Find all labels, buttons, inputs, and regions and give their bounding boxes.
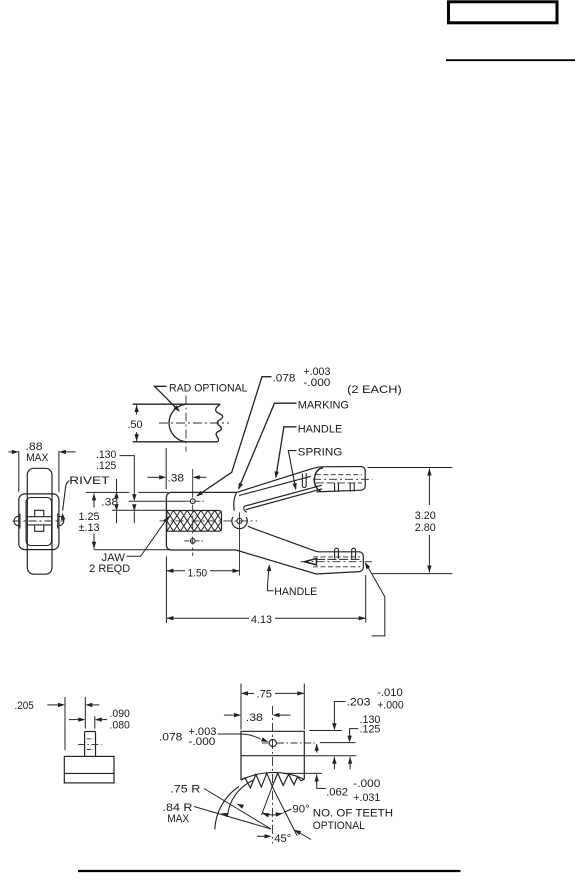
footer rule (78, 870, 461, 872)
svg-text:OPTIONAL: OPTIONAL (313, 820, 365, 832)
upper tube crimp ticks (334, 483, 336, 492)
lower tube wire hole wedge (305, 559, 317, 565)
hole center extension (320, 742, 356, 744)
dim .205 (64, 697, 66, 750)
svg-text:.090: .090 (110, 708, 130, 720)
arm neck curves (234, 492, 237, 510)
svg-text:.080: .080 (110, 720, 130, 732)
dim .062 (317, 787, 326, 789)
jaw plate mid line (241, 755, 304, 757)
dim .38 vertical arrows (114, 491, 118, 498)
svg-text:-.010: -.010 (377, 687, 403, 699)
svg-text:HANDLE: HANDLE (274, 586, 317, 598)
svg-text:.75: .75 (257, 688, 273, 700)
upper handle top edge (237, 466, 366, 492)
dim .50 arrows (134, 405, 138, 412)
plate top extension (309, 730, 341, 732)
rivet detail head (64, 756, 114, 783)
rivet holes vertical centerline (192, 469, 194, 498)
top view: rounded end arc (169, 404, 186, 442)
dim .38 detail (234, 713, 241, 717)
jaw teeth hatch (167, 511, 222, 532)
leader SPRING (288, 451, 296, 489)
svg-text:RAD OPTIONAL: RAD OPTIONAL (169, 382, 248, 394)
title block box top right (449, 2, 558, 23)
top view: vertical centerline (185, 396, 187, 452)
svg-text:4.13: 4.13 (251, 614, 272, 626)
90 deg arc (262, 813, 283, 815)
leader MARKING (239, 403, 297, 488)
svg-text:+.003: +.003 (303, 366, 330, 378)
dim .88 MAX (18, 451, 20, 492)
jaw centerline (160, 520, 258, 522)
jaw face arc (241, 772, 304, 780)
svg-text:1.50: 1.50 (188, 567, 208, 579)
dim 1.50 (165, 557, 167, 624)
top view: horizontal centerline (159, 422, 229, 424)
extension line jaw top (1.25 top) (86, 491, 130, 493)
detail vertical centerline (272, 706, 274, 844)
mid line extension (304, 755, 356, 757)
radius line .75R (204, 789, 271, 830)
dim .090/.080 (94, 716, 96, 728)
lower tube centerline (301, 561, 373, 563)
svg-text:.078: .078 (159, 732, 183, 744)
svg-text:.078: .078 (273, 372, 296, 384)
rivet stem hidden dashes (87, 738, 94, 740)
svg-text:MARKING: MARKING (298, 400, 349, 412)
teeth zigzag (241, 773, 304, 788)
extension line jaw bottom (1.25 bottom) (94, 549, 171, 551)
svg-text:.062: .062 (326, 787, 348, 799)
leader to lower tube end (366, 564, 385, 636)
lower tube crimp ticks (335, 548, 339, 559)
leader .078 detail to hole (218, 734, 261, 739)
dim .38 horizontal (165, 448, 167, 490)
upper tube U crimp tick (302, 473, 306, 487)
svg-text:.38: .38 (246, 712, 263, 724)
rivet hole bottom (190, 539, 195, 544)
upper tube centerline (313, 478, 373, 480)
jaw plate detail outline (241, 731, 304, 780)
svg-text:(2 EACH): (2 EACH) (347, 384, 402, 396)
upper handle fold line (239, 476, 311, 495)
45 deg arrow (265, 834, 272, 838)
top view: break line (216, 404, 223, 442)
svg-text:1.25: 1.25 (79, 511, 100, 523)
dim 3.20/2.80 (427, 469, 431, 476)
svg-text:RIVET: RIVET (69, 475, 110, 487)
svg-text:3.20: 3.20 (415, 510, 436, 522)
top view: jaw top outline (133, 403, 221, 405)
svg-text:NO. OF TEETH: NO. OF TEETH (313, 807, 393, 819)
svg-text:HANDLE: HANDLE (298, 423, 343, 435)
front view: rivet end bumps (14, 516, 19, 526)
dim 1.25 +-.13 (92, 493, 96, 500)
svg-text:2.80: 2.80 (415, 522, 436, 534)
svg-text:MAX: MAX (167, 813, 190, 825)
svg-text:+.000: +.000 (377, 700, 404, 712)
svg-text:MAX: MAX (26, 452, 49, 464)
front view: jaw plate lines (26, 516, 51, 518)
svg-text:+.031: +.031 (353, 792, 380, 804)
upper tube crimp arc (314, 468, 323, 491)
svg-text:.125: .125 (96, 460, 116, 472)
svg-text:.203: .203 (347, 697, 371, 709)
front view: rivet cross (35, 510, 44, 531)
rivet detail stem (84, 732, 86, 757)
90 deg tooth flank lines (262, 787, 273, 816)
svg-text:SPRING: SPRING (298, 446, 343, 458)
dim 3.20/2.80 extension lines (368, 467, 453, 469)
pivot vertical extension (239, 512, 241, 575)
teeth box (jaw serrations) (167, 511, 222, 532)
rivet stem centerline (78, 743, 102, 745)
svg-text:90°: 90° (292, 804, 309, 816)
rivet hole top (190, 499, 195, 504)
radius arcs (215, 787, 239, 830)
svg-text:.38: .38 (168, 472, 185, 484)
header rule (446, 59, 575, 61)
teeth top extension (112, 509, 167, 511)
rivet center extension (129, 500, 185, 502)
svg-text:45°: 45° (274, 833, 291, 845)
front view: centerline (13, 520, 65, 522)
radius line .84R (194, 807, 271, 830)
hole centerline ticks (262, 742, 269, 744)
teeth face extension (283, 772, 322, 774)
leader HANDLE upper (276, 427, 297, 477)
lower arm top edge (236, 526, 363, 574)
pivot boss outer (232, 517, 247, 529)
svg-text:.50: .50 (128, 419, 143, 431)
svg-text:-.000: -.000 (303, 377, 330, 389)
lower tube hidden lines (313, 556, 360, 558)
leader RAD OPTIONAL (155, 386, 179, 410)
svg-text:.125: .125 (360, 724, 381, 736)
leader .078 to rivet hole (198, 377, 272, 496)
upper spring leaf (244, 485, 322, 506)
svg-text:.75 R: .75 R (170, 783, 200, 795)
svg-text:2 REQD: 2 REQD (89, 563, 130, 575)
jaw body outline (166, 492, 236, 550)
svg-text:±.13: ±.13 (79, 522, 100, 534)
jaw plate hole (269, 739, 276, 746)
svg-text:.205: .205 (15, 700, 34, 712)
upper tube hidden lines (316, 474, 362, 476)
pivot hole (237, 518, 242, 523)
svg-text:.38: .38 (101, 497, 118, 509)
dim 4.13 (365, 575, 367, 623)
svg-text:-.000: -.000 (188, 736, 215, 748)
front view: wide rounded body (19, 494, 59, 550)
svg-text:-.000: -.000 (353, 778, 380, 790)
front view: inner rounded rect (26, 498, 51, 546)
front view: tall rounded body (27, 468, 52, 574)
dim .75 (240, 684, 242, 730)
